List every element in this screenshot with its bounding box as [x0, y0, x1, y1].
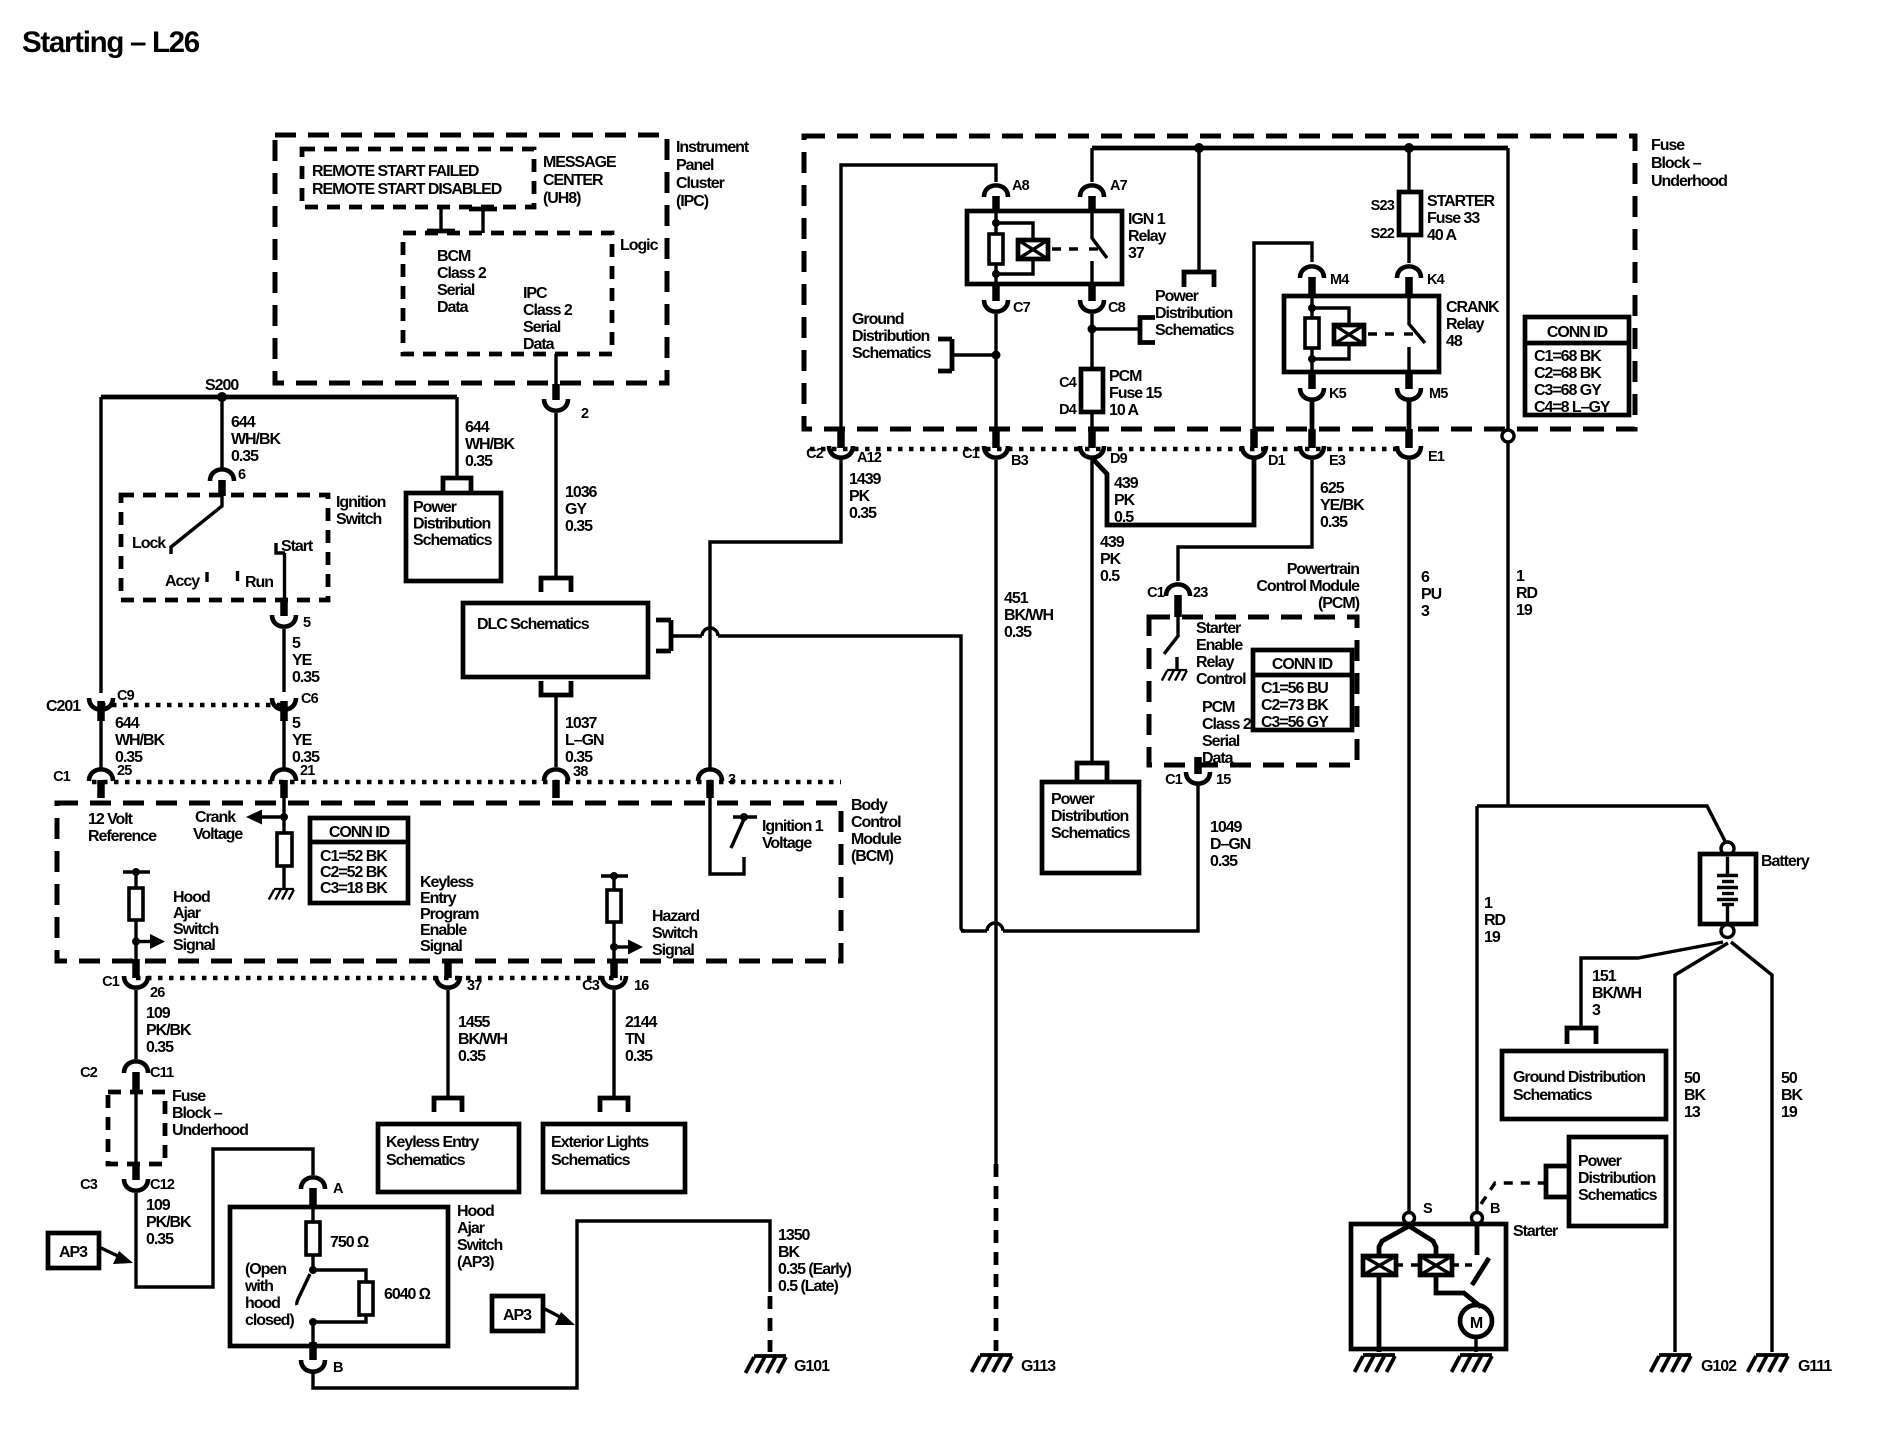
- svg-text:1049: 1049: [1210, 819, 1243, 836]
- svg-text:G101: G101: [794, 1358, 830, 1375]
- svg-text:6: 6: [1421, 569, 1430, 586]
- svg-text:BK/WH: BK/WH: [1592, 985, 1641, 1002]
- wire solenoid to motor: [1436, 1275, 1481, 1307]
- IGN 1 relay box: [967, 211, 1122, 284]
- wire through small fuse block: [134, 1090, 137, 1166]
- wire S200 right leg to power distribution: [455, 397, 458, 478]
- ground (starter solenoid): [1355, 1355, 1396, 1372]
- connector K4: [1397, 266, 1421, 278]
- svg-text:Signal: Signal: [652, 942, 694, 959]
- connector A7: [1080, 185, 1104, 197]
- svg-text:Enable: Enable: [420, 922, 467, 939]
- svg-text:PK: PK: [849, 488, 871, 505]
- svg-text:YE/BK: YE/BK: [1320, 497, 1365, 514]
- connector D9: [1088, 429, 1096, 448]
- svg-text:C11: C11: [150, 1065, 174, 1081]
- svg-text:C1=68 BK: C1=68 BK: [1534, 348, 1602, 365]
- svg-text:Switch: Switch: [457, 1237, 503, 1254]
- svg-text:IGN 1: IGN 1: [1128, 211, 1166, 228]
- CONN ID table (BCM): [310, 818, 408, 903]
- svg-text:Power: Power: [413, 499, 457, 516]
- wire 5 YE below C6: [282, 721, 285, 768]
- svg-text:Body: Body: [851, 797, 888, 814]
- wire bus to A7: [1090, 148, 1093, 182]
- connector 37: [444, 959, 452, 978]
- wire C7 to B3: [994, 314, 997, 429]
- svg-text:Schematics: Schematics: [852, 345, 932, 362]
- AP3 reference box left: [48, 1233, 133, 1268]
- svg-text:WH/BK: WH/BK: [231, 431, 281, 448]
- svg-text:Schematics: Schematics: [1578, 1187, 1658, 1204]
- hazard switch signal branch: [601, 872, 643, 959]
- svg-text:B: B: [333, 1360, 343, 1376]
- svg-text:Serial: Serial: [1202, 733, 1240, 750]
- svg-text:1455: 1455: [458, 1014, 491, 1031]
- instrument panel cluster dashed box: [275, 135, 667, 383]
- svg-text:D4: D4: [1059, 402, 1077, 418]
- svg-text:(BCM): (BCM): [851, 848, 894, 865]
- svg-text:50: 50: [1781, 1070, 1798, 1087]
- connector C1 15: [1194, 757, 1202, 774]
- svg-text:C2: C2: [806, 446, 824, 462]
- svg-text:Lock: Lock: [132, 535, 166, 552]
- svg-text:Switch: Switch: [173, 921, 219, 938]
- wire 2144 TN: [612, 990, 615, 1097]
- svg-text:23: 23: [1193, 585, 1208, 601]
- connector C2 A12: [837, 429, 845, 448]
- svg-text:C201: C201: [46, 698, 81, 715]
- svg-text:C1: C1: [102, 974, 120, 990]
- PCM dashed box: [1149, 617, 1357, 765]
- svg-text:Hood: Hood: [173, 889, 210, 906]
- ground G101: [746, 1356, 787, 1373]
- connector C12: [132, 1164, 140, 1180]
- off-page bracket above ground distribution box: [1567, 1028, 1596, 1044]
- power distribution schematics box (left): [406, 493, 501, 581]
- svg-text:S: S: [1423, 1201, 1433, 1217]
- svg-text:A8: A8: [1012, 178, 1030, 194]
- svg-text:WH/BK: WH/BK: [115, 732, 165, 749]
- keyless entry schematics box: [378, 1124, 519, 1192]
- svg-text:Relay: Relay: [1446, 316, 1485, 333]
- svg-text:closed): closed): [245, 1312, 294, 1329]
- svg-text:50: 50: [1684, 1070, 1701, 1087]
- svg-text:C3=56 GY: C3=56 GY: [1261, 714, 1329, 731]
- svg-text:G113: G113: [1021, 1358, 1056, 1375]
- svg-text:38: 38: [573, 764, 588, 780]
- svg-text:PK/BK: PK/BK: [146, 1022, 192, 1039]
- wire S200 bus: [101, 395, 457, 400]
- svg-text:C2=73 BK: C2=73 BK: [1261, 697, 1329, 714]
- svg-text:625: 625: [1320, 480, 1345, 497]
- svg-text:439: 439: [1100, 534, 1125, 551]
- svg-text:Start: Start: [281, 538, 314, 555]
- svg-text:0.5 (Late): 0.5 (Late): [778, 1278, 838, 1295]
- svg-text:K4: K4: [1427, 272, 1445, 288]
- off-page bracket left of power distribution (starter): [1546, 1166, 1568, 1197]
- connector C8: [1088, 284, 1096, 301]
- svg-text:19: 19: [1484, 929, 1501, 946]
- wire DLC to BCM serial net (451 junction): [671, 628, 1198, 931]
- svg-text:Panel: Panel: [676, 157, 714, 174]
- wire K5 to E3: [1310, 401, 1315, 429]
- svg-text:PK: PK: [1114, 492, 1136, 509]
- svg-text:hood: hood: [245, 1295, 280, 1312]
- wire 151 BK/WH to ground distribution: [1581, 942, 1723, 1027]
- wire fuse 33 to K4: [1407, 235, 1410, 263]
- svg-text:0.5: 0.5: [1114, 509, 1134, 526]
- svg-text:IPC: IPC: [523, 285, 548, 302]
- svg-text:K5: K5: [1329, 386, 1347, 402]
- svg-text:RD: RD: [1484, 912, 1506, 929]
- svg-text:Program: Program: [420, 906, 479, 923]
- svg-text:Schematics: Schematics: [413, 532, 493, 549]
- svg-text:25: 25: [117, 763, 132, 779]
- svg-text:0.5: 0.5: [1100, 568, 1120, 585]
- starter box: [1351, 1224, 1506, 1349]
- svg-text:Data: Data: [1202, 750, 1234, 767]
- svg-text:1036: 1036: [565, 484, 598, 501]
- svg-text:Battery: Battery: [1761, 853, 1810, 870]
- connector C1 23: [1166, 584, 1190, 596]
- svg-text:M5: M5: [1429, 386, 1448, 402]
- wire resistor to ground: [282, 866, 285, 888]
- hood ajar switch contacts: [311, 1255, 314, 1270]
- svg-text:C2=52 BK: C2=52 BK: [320, 864, 388, 881]
- svg-text:AP3: AP3: [503, 1307, 532, 1324]
- crank relay linkage dashes: [1368, 332, 1400, 335]
- hood ajar switch signal branch: [123, 868, 165, 959]
- svg-text:Enable: Enable: [1196, 637, 1243, 654]
- svg-text:G102: G102: [1701, 1358, 1737, 1375]
- svg-text:Run: Run: [245, 574, 273, 591]
- svg-text:Powertrain: Powertrain: [1287, 561, 1359, 578]
- svg-text:Ajar: Ajar: [173, 905, 201, 922]
- svg-text:Schematics: Schematics: [1051, 825, 1131, 842]
- connector C1 B3: [992, 429, 1000, 448]
- ground distribution schematics box (right): [1502, 1051, 1666, 1119]
- svg-text:Underhood: Underhood: [172, 1122, 248, 1139]
- svg-text:RD: RD: [1516, 585, 1538, 602]
- svg-text:Data: Data: [437, 299, 469, 316]
- svg-text:BK: BK: [1781, 1087, 1804, 1104]
- svg-text:0.35: 0.35: [1004, 624, 1032, 641]
- svg-text:Ignition: Ignition: [336, 494, 386, 511]
- crank relay coil resistor: [1310, 296, 1313, 318]
- starter fuse 33: [1407, 148, 1410, 192]
- wire motor to ground: [1474, 1337, 1477, 1352]
- svg-text:0.35 (Early): 0.35 (Early): [778, 1261, 852, 1278]
- svg-text:Power: Power: [1155, 288, 1199, 305]
- BCM connector dotted line (26/37/16): [136, 976, 622, 981]
- svg-text:S200: S200: [205, 377, 239, 394]
- svg-text:0.35: 0.35: [625, 1048, 653, 1065]
- svg-text:C9: C9: [117, 688, 135, 704]
- svg-text:AP3: AP3: [59, 1244, 88, 1261]
- svg-text:Fuse: Fuse: [172, 1088, 206, 1105]
- svg-text:3: 3: [1592, 1002, 1601, 1019]
- wire 5 YE to C6: [282, 629, 285, 692]
- wire 439 PK from D9 to power distribution: [1090, 458, 1093, 763]
- svg-text:YE: YE: [292, 652, 313, 669]
- crank relay coil winding: [1312, 308, 1349, 359]
- svg-text:3: 3: [1421, 603, 1430, 620]
- svg-text:CRANK: CRANK: [1446, 299, 1500, 316]
- svg-text:B: B: [1490, 1201, 1500, 1217]
- svg-text:Ajar: Ajar: [457, 1220, 485, 1237]
- IGN1 relay coil resistor: [994, 211, 997, 234]
- starter solenoid coil right: [1420, 1256, 1452, 1275]
- svg-text:E1: E1: [1428, 449, 1445, 465]
- off-page bracket below DLC: [541, 681, 571, 695]
- off-page bracket above power distribution box: [443, 478, 471, 491]
- svg-text:5: 5: [292, 635, 301, 652]
- svg-text:STARTER: STARTER: [1427, 193, 1496, 210]
- svg-text:Cluster: Cluster: [676, 175, 725, 192]
- wire 1 RD from fuse block to battery and starter B: [1477, 442, 1725, 1212]
- ground distribution schematics reference (left): [852, 311, 1001, 371]
- wire top bus: [1092, 146, 1508, 151]
- svg-text:A: A: [333, 1181, 344, 1197]
- svg-text:16: 16: [634, 978, 649, 994]
- ground G111: [1748, 1355, 1789, 1372]
- svg-text:Voltage: Voltage: [193, 826, 243, 843]
- svg-text:G111: G111: [1798, 1358, 1832, 1375]
- svg-text:CONN ID: CONN ID: [1272, 656, 1333, 673]
- svg-text:C2=68 BK: C2=68 BK: [1534, 365, 1602, 382]
- wire 109 PK/BK upper: [134, 990, 137, 1059]
- svg-text:Logic: Logic: [620, 237, 659, 254]
- svg-text:M4: M4: [1330, 272, 1349, 288]
- svg-text:(Open: (Open: [245, 1261, 286, 1278]
- svg-text:0.35: 0.35: [1210, 853, 1238, 870]
- resistor 6040 ohm parallel: [313, 1270, 366, 1282]
- dashed wire starter B to power distribution: [1481, 1183, 1544, 1204]
- wire start to connector 5: [283, 553, 286, 602]
- wire A12 to A8 feed: [841, 165, 996, 429]
- connector 5: [272, 615, 296, 627]
- DLC Schematics box: [463, 603, 648, 677]
- svg-text:YE: YE: [292, 732, 313, 749]
- svg-text:REMOTE START FAILED: REMOTE START FAILED: [312, 163, 479, 180]
- svg-text:C1: C1: [962, 446, 980, 462]
- svg-text:19: 19: [1516, 602, 1533, 619]
- svg-text:Power: Power: [1051, 791, 1095, 808]
- wire 109 PK/BK to hood ajar switch A: [136, 1149, 313, 1287]
- wire 1439 PK from A12 to BCM 3: [710, 457, 841, 770]
- ignition 1 voltage switch: [733, 815, 757, 818]
- svg-text:644: 644: [115, 715, 140, 732]
- svg-text:21: 21: [300, 763, 315, 779]
- svg-text:C6: C6: [301, 691, 319, 707]
- svg-text:1037: 1037: [565, 715, 598, 732]
- run contact tick: [236, 571, 239, 581]
- bus stub right between message center and logic: [469, 209, 497, 233]
- svg-text:(IPC): (IPC): [676, 193, 709, 210]
- svg-text:C4=8 L–GY: C4=8 L–GY: [1534, 399, 1611, 416]
- svg-text:Control Module: Control Module: [1256, 578, 1360, 595]
- svg-text:0.35: 0.35: [458, 1048, 486, 1065]
- svg-text:48: 48: [1446, 333, 1463, 350]
- svg-text:15: 15: [1216, 772, 1231, 788]
- power distribution schematics box (starter): [1569, 1137, 1666, 1226]
- crank relay box: [1284, 296, 1439, 372]
- svg-text:Hazard: Hazard: [652, 908, 699, 925]
- svg-text:S22: S22: [1371, 226, 1395, 242]
- svg-text:Distribution: Distribution: [1051, 808, 1128, 825]
- dashed wire to G113: [994, 1164, 999, 1351]
- svg-text:5: 5: [303, 615, 311, 631]
- resistor crank voltage: [277, 833, 292, 866]
- fuse block underhood small dashed box: [108, 1092, 165, 1164]
- svg-text:Relay: Relay: [1196, 654, 1235, 671]
- svg-text:PK: PK: [1100, 551, 1122, 568]
- wire 50 BK 13 to G102: [1675, 943, 1728, 1352]
- svg-text:151: 151: [1592, 968, 1617, 985]
- svg-text:0.35: 0.35: [1320, 514, 1348, 531]
- connector 3: [698, 769, 722, 781]
- wire 439 PK from D9 to D1: [1092, 458, 1254, 525]
- connector 2 tick: [552, 384, 560, 400]
- svg-text:0.35: 0.35: [465, 453, 493, 470]
- svg-text:C3=68 GY: C3=68 GY: [1534, 382, 1602, 399]
- svg-text:REMOTE START DISABLED: REMOTE START DISABLED: [312, 181, 502, 198]
- fuse block underhood dashed box: [804, 136, 1635, 429]
- svg-text:A12: A12: [857, 450, 882, 466]
- svg-text:6040 Ω: 6040 Ω: [384, 1286, 431, 1303]
- wire IPC logic to connector 2: [554, 354, 557, 386]
- wire 1455 BK/WH: [446, 990, 449, 1097]
- svg-text:Underhood: Underhood: [1651, 173, 1727, 190]
- svg-text:MESSAGE: MESSAGE: [543, 154, 617, 171]
- svg-text:Voltage: Voltage: [762, 835, 812, 852]
- connector M5: [1405, 372, 1413, 389]
- svg-text:19: 19: [1781, 1104, 1798, 1121]
- svg-text:M: M: [1470, 1315, 1483, 1332]
- svg-text:(AP3): (AP3): [457, 1254, 494, 1271]
- starter B terminal: [1472, 1213, 1483, 1224]
- svg-text:D–GN: D–GN: [1210, 836, 1251, 853]
- wire D1 to M4 inside fuse block: [1254, 243, 1312, 429]
- ignition switch start contact: [276, 543, 285, 553]
- svg-text:Relay: Relay: [1128, 228, 1167, 245]
- ground (crank voltage): [269, 889, 294, 900]
- svg-text:E3: E3: [1329, 453, 1346, 469]
- AP3 reference box right: [492, 1296, 575, 1331]
- connector 26: [132, 959, 140, 978]
- connector M4: [1300, 266, 1324, 278]
- connector A8: [984, 185, 1008, 197]
- svg-text:Accy: Accy: [165, 573, 200, 590]
- off-page bracket right of DLC: [656, 620, 671, 651]
- connector 2: [544, 399, 568, 411]
- svg-text:C8: C8: [1108, 300, 1126, 316]
- wire 1037 L-GN to connector 38: [554, 695, 557, 767]
- svg-text:WH/BK: WH/BK: [465, 436, 515, 453]
- svg-text:Entry: Entry: [420, 890, 457, 907]
- svg-text:451: 451: [1004, 590, 1029, 607]
- BCM connector dotted line C1: [92, 780, 841, 785]
- wire ignition 1 voltage inside BCM: [710, 798, 744, 874]
- wire left solenoid to ground: [1377, 1275, 1382, 1352]
- logic dashed box: [403, 233, 612, 354]
- svg-text:Ground Distribution: Ground Distribution: [1513, 1069, 1645, 1086]
- IGN1 relay coil winding: [996, 223, 1033, 274]
- svg-text:Data: Data: [523, 336, 555, 353]
- svg-text:Class 2: Class 2: [1202, 716, 1252, 733]
- starter switch from B: [1475, 1224, 1480, 1255]
- svg-text:Block –: Block –: [1651, 155, 1702, 172]
- svg-text:BCM: BCM: [437, 248, 471, 265]
- off-page bracket above keyless box: [434, 1098, 462, 1112]
- svg-text:Schematics: Schematics: [1513, 1087, 1593, 1104]
- svg-text:Schematics: Schematics: [1155, 322, 1235, 339]
- svg-text:D1: D1: [1268, 453, 1286, 469]
- svg-text:0.35: 0.35: [849, 505, 877, 522]
- svg-text:TN: TN: [625, 1031, 645, 1048]
- crank voltage arrow: [258, 815, 284, 818]
- resistor 750 ohm: [311, 1207, 314, 1222]
- svg-text:Keyless Entry: Keyless Entry: [386, 1134, 479, 1151]
- svg-text:1: 1: [1516, 568, 1525, 585]
- svg-text:A7: A7: [1110, 178, 1128, 194]
- svg-text:PCM: PCM: [1202, 699, 1235, 716]
- svg-text:BK/WH: BK/WH: [1004, 607, 1053, 624]
- ground (starter motor): [1452, 1355, 1493, 1372]
- svg-text:Ignition 1: Ignition 1: [762, 818, 824, 835]
- svg-text:1350: 1350: [778, 1227, 811, 1244]
- svg-text:BK: BK: [1684, 1087, 1707, 1104]
- off-page bracket above exterior lights box: [600, 1098, 628, 1112]
- wire 1036 GY to DLC: [554, 413, 557, 578]
- power distribution schematics reference (at C8): [1088, 318, 1156, 343]
- svg-text:Instrument: Instrument: [676, 139, 750, 156]
- svg-text:D9: D9: [1110, 451, 1128, 467]
- svg-text:3: 3: [728, 772, 736, 788]
- svg-text:Ground: Ground: [852, 311, 904, 328]
- connector D1: [1250, 429, 1258, 448]
- CONN ID table (PCM): [1253, 650, 1352, 731]
- message center dashed box: [302, 149, 534, 207]
- off-page bracket above DLC: [541, 578, 571, 592]
- svg-text:Crank: Crank: [195, 809, 236, 826]
- svg-text:109: 109: [146, 1197, 171, 1214]
- svg-text:DLC Schematics: DLC Schematics: [477, 616, 590, 633]
- body control module dashed box: [57, 803, 841, 961]
- connector K5: [1308, 372, 1316, 389]
- wire 644 below C9: [99, 721, 102, 768]
- ignition switch dashed box: [121, 495, 328, 600]
- svg-text:0.35: 0.35: [146, 1231, 174, 1248]
- svg-text:Exterior Lights: Exterior Lights: [551, 1134, 649, 1151]
- svg-text:Distribution: Distribution: [413, 516, 490, 533]
- connector C7: [992, 284, 1000, 301]
- svg-text:6: 6: [238, 467, 246, 483]
- svg-text:S23: S23: [1371, 198, 1395, 214]
- svg-text:Switch: Switch: [336, 511, 382, 528]
- svg-text:37: 37: [467, 978, 482, 994]
- connector B: [309, 1342, 317, 1360]
- svg-text:1439: 1439: [849, 471, 882, 488]
- PCM fuse 15: [1081, 369, 1103, 412]
- wire 6 PU from E1 to starter S: [1407, 460, 1410, 1212]
- svg-text:26: 26: [150, 985, 165, 1001]
- svg-text:C12: C12: [150, 1177, 175, 1193]
- svg-text:C4: C4: [1059, 375, 1077, 391]
- svg-text:(UH8): (UH8): [543, 190, 581, 207]
- connector A: [301, 1177, 325, 1189]
- svg-text:1: 1: [1484, 895, 1493, 912]
